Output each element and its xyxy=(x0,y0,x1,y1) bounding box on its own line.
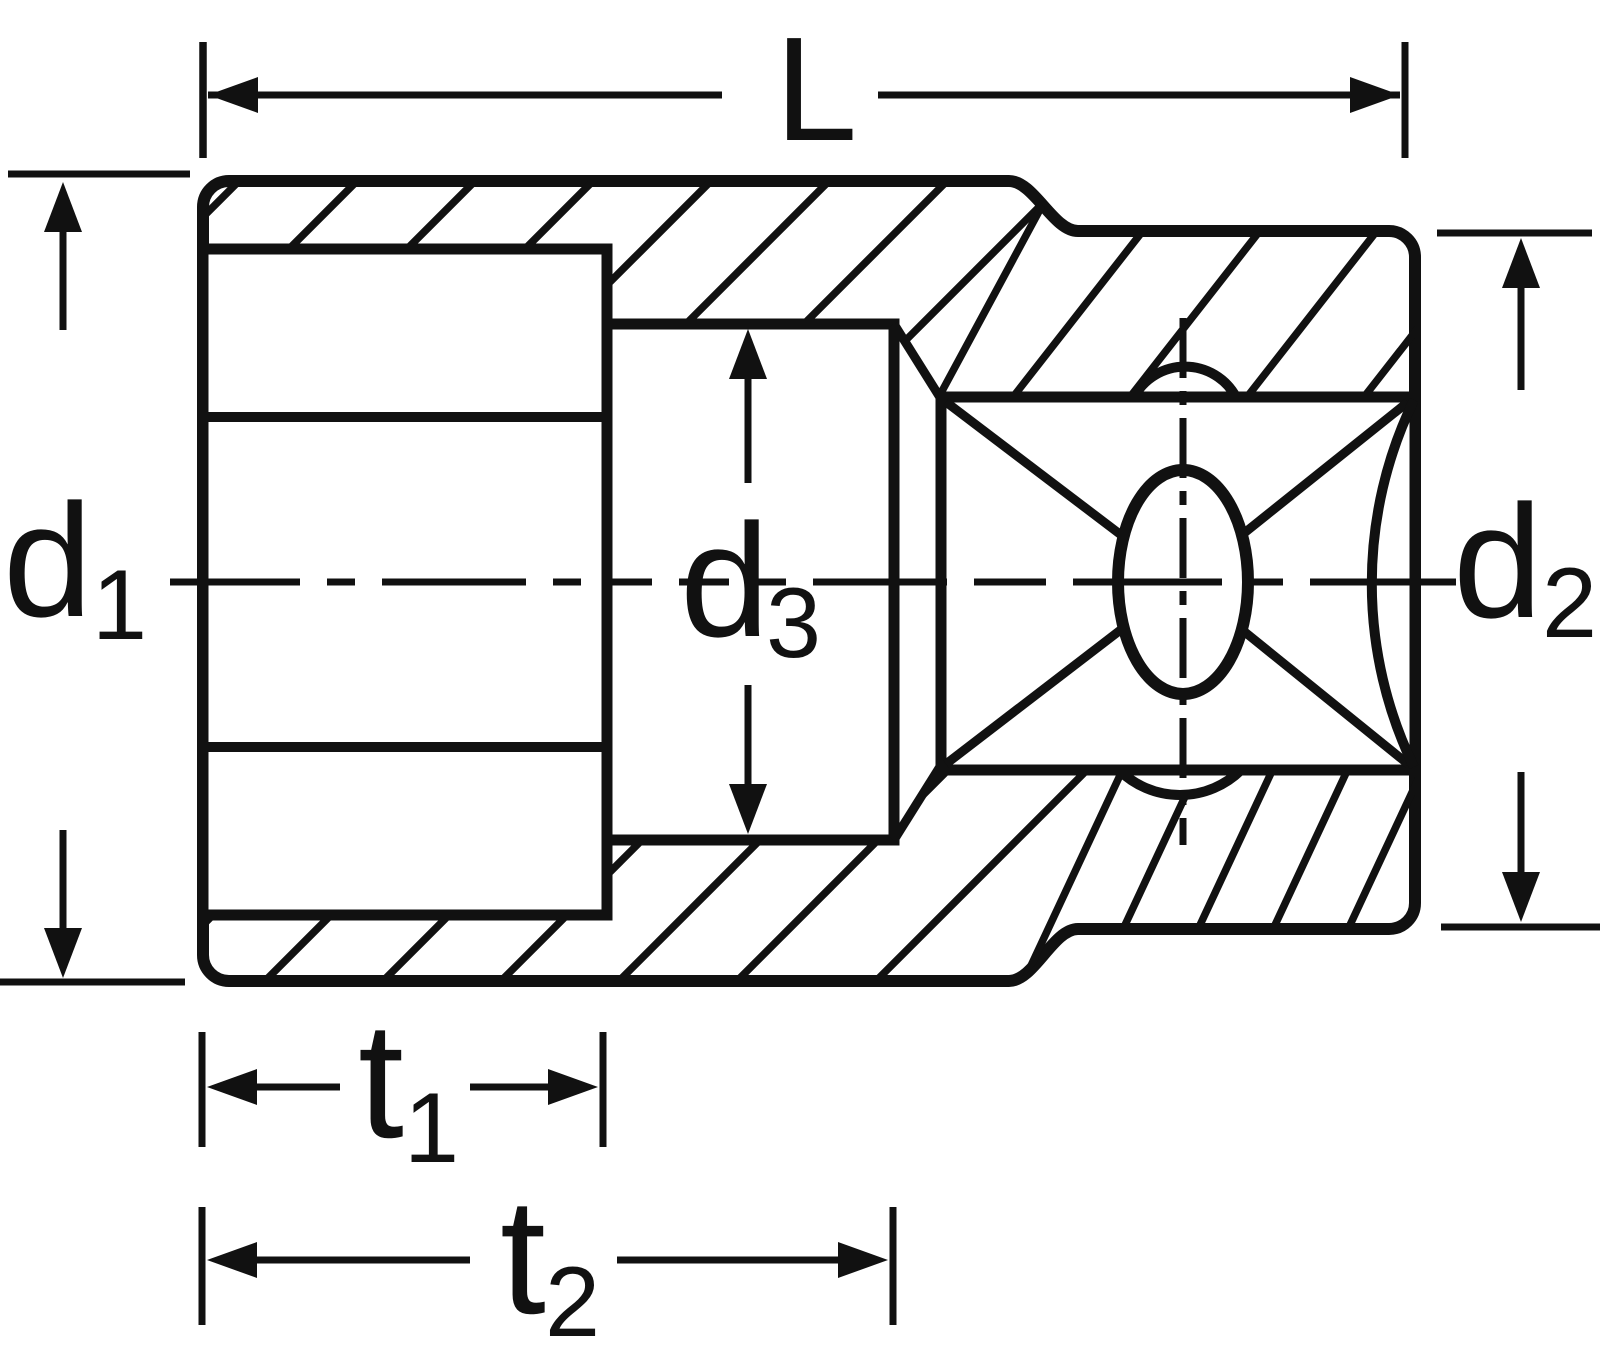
svg-text:t: t xyxy=(500,1164,546,1348)
svg-text:1: 1 xyxy=(404,1072,459,1183)
svg-text:L: L xyxy=(775,7,857,172)
svg-text:1: 1 xyxy=(92,549,147,660)
svg-text:d: d xyxy=(680,491,770,671)
svg-text:d: d xyxy=(1453,472,1543,652)
svg-text:2: 2 xyxy=(545,1246,600,1357)
svg-text:3: 3 xyxy=(766,567,821,678)
svg-text:2: 2 xyxy=(1542,547,1597,658)
svg-text:d: d xyxy=(3,471,93,651)
svg-text:t: t xyxy=(358,988,404,1172)
